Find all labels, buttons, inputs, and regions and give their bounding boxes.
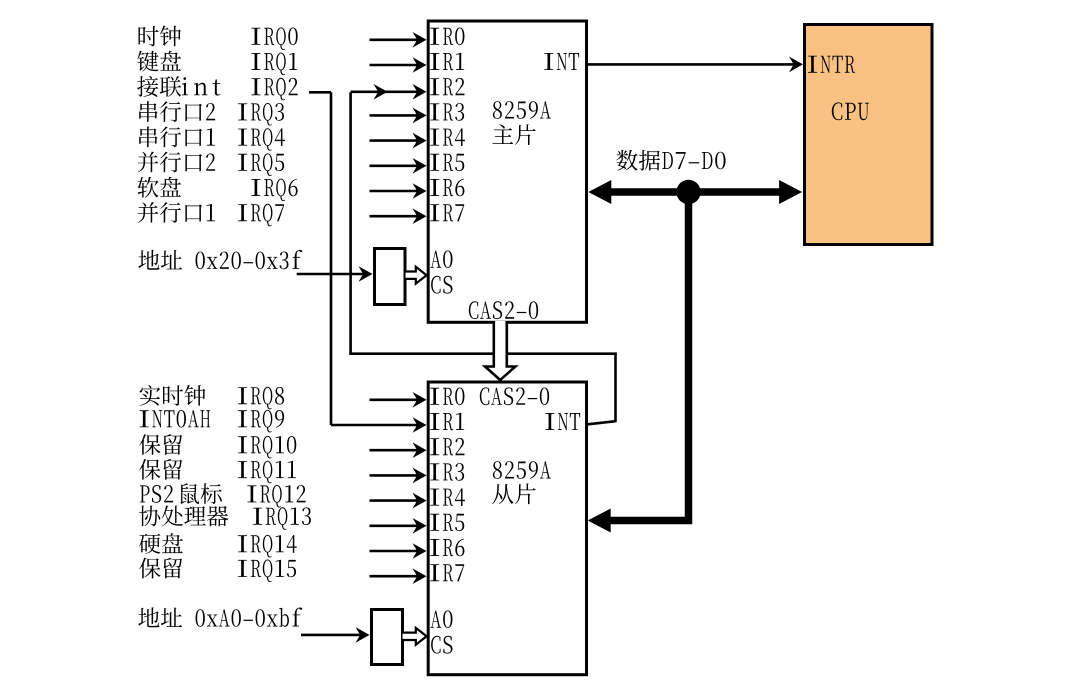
label 地址(master) [138,250,182,270]
wire addr 0x20-0x3f to decoder [297,273,366,276]
pin master IR5 [430,154,464,171]
wire slave INT cross [349,352,617,355]
label 硬盘 [139,533,183,554]
pin slave IR7 [430,564,464,581]
text 主片 [492,124,535,145]
text 从片 [492,483,535,504]
wire IRQ5 to master IR5 [370,165,421,168]
wire slave INT riser up [349,92,352,353]
label 并行口2 [138,152,203,173]
pin master IR0 [430,28,464,46]
label PS2 [140,485,173,503]
label IRQ4 [238,128,285,151]
label IRQ5 [238,153,284,176]
label 地址(slave) [138,607,182,627]
label IRQ8 [238,387,284,410]
label 串行口1 [139,126,202,147]
open arrow decoder to slave A0/CS [403,628,427,645]
wire IRQ4 to master IR4 [370,139,421,142]
label 1 [207,128,215,145]
label IRQ13 [253,507,311,529]
label 保留10 [139,434,182,455]
pin master IR6 [430,179,464,197]
label 0x20-0x3f [196,250,303,269]
wire IRQ12 to slave IR4 [370,499,421,502]
wire slave INT stub [587,421,616,424]
pin slave A0 [430,610,452,628]
pin master INT [544,53,579,70]
label 0xA0-0xbf [196,608,303,627]
pin slave CS [431,636,452,654]
text CPU [832,102,869,120]
label 接联 [137,76,181,97]
wire IRQ3 to master IR3 [370,114,421,117]
label IRQ10 [238,436,296,459]
label IRQ3 [238,103,284,126]
wire IRQ1 to master IR1 [370,64,421,67]
wire IRQ0 to master IR0 [370,38,421,41]
label IRQ7 [238,204,284,227]
pin slave IR5 [430,514,464,531]
wire IRQ8 to slave IR0 [370,398,421,401]
pin master IR4 [430,128,465,146]
label INT0AH [140,410,211,428]
pin slave IR0 [430,388,464,406]
label D7-D0 [662,152,725,170]
wire IRQ2 riser down [330,92,333,425]
label 协处理器 [139,506,228,527]
pin slave IR2 [430,438,464,456]
pin slave IR3 [430,463,464,481]
open arrow decoder to master A0/CS [406,267,427,284]
label 2 [206,103,215,120]
address decoder box (slave) [372,610,403,665]
wire IRQ13 to slave IR5 [370,524,421,527]
label IRQ6 [251,179,297,202]
label IRQ0 [251,27,297,50]
pin master IR7 [430,204,464,221]
CPU box [805,25,933,245]
pin CPU INTR [808,56,855,73]
wire IRQ10 to slave IR2 [370,449,421,452]
label IRQ12 [247,485,305,508]
pin master CAS2-0 [469,301,538,319]
label IRQ1 [251,53,297,76]
label 保留11 [139,459,182,480]
label 1b [207,204,215,221]
wire addr 0xA0-0xbf to decoder [301,634,363,637]
text 8259A master [493,101,551,119]
wire IRQ15 to slave IR7 [370,575,421,578]
pin master IR2 [430,78,464,96]
label 并行口1 [138,202,203,223]
pin master IR3 [430,103,464,121]
wire IRQ7 to master IR7 [370,215,421,218]
pin slave INT [545,413,580,430]
wire IRQ11 to slave IR3 [370,474,421,477]
data bus horizontal [608,188,782,196]
cascade bus hollow arrow [485,321,515,380]
wire IRQ6 to master IR6 [370,190,421,193]
label IRQ11 [238,461,296,484]
label IRQ15 [238,560,296,583]
label 时钟 [139,25,182,46]
pin master A0 [430,250,452,268]
label 数据 [617,150,660,171]
label 保留15 [139,558,182,579]
address decoder box (master) [375,249,406,305]
pin master IR1 [430,53,464,70]
wire IRQ14 to slave IR6 [370,550,421,553]
label 软盘 [138,177,182,198]
wire IRQ2 net to slave IR1 [331,424,420,427]
label IRQ2 [251,78,297,101]
label int [182,77,221,95]
pin slave CAS2-0 [480,387,549,405]
8259A slave chip box U2 [428,382,586,675]
label 键盘 [137,51,181,72]
label 鼠标 [180,483,221,504]
pin master CS [431,276,452,294]
wire slave INT riser [614,354,617,423]
data bus vertical to slave [608,192,689,521]
label IRQ14 [238,535,297,558]
text 8259A slave [493,461,551,479]
pin slave IR4 [430,488,465,506]
pin slave IR1 [430,413,464,430]
wire master INT to CPU INTR [587,63,798,66]
8259A master chip box U1 [428,21,586,322]
label IRQ9 [238,410,284,433]
pin slave IR6 [430,539,464,557]
label 实时钟 [139,385,205,406]
data bus junction dot [676,180,700,204]
label 2b [206,154,215,171]
label 串行口2 [139,101,202,122]
wire slave INT to master IR2 [351,91,420,94]
wire IRQ2 label lead [309,91,331,94]
